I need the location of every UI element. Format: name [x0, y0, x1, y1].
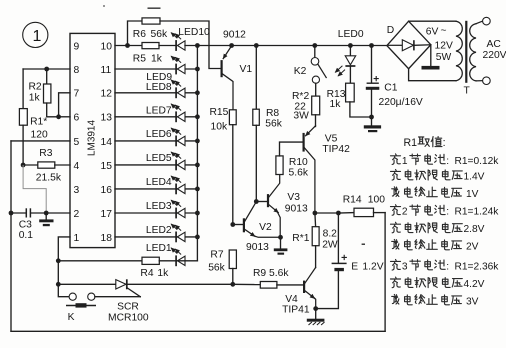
svg-text:1.2V: 1.2V	[362, 261, 383, 272]
svg-text:8: 8	[74, 65, 80, 76]
resistor R2 1k	[29, 69, 59, 117]
svg-text:12V: 12V	[435, 41, 453, 52]
svg-text:1k: 1k	[157, 268, 169, 279]
svg-text:V4: V4	[285, 294, 298, 305]
svg-text:LED7: LED7	[146, 105, 172, 116]
wire node to battery node	[315, 212, 339, 214]
LED LED5	[146, 152, 185, 170]
svg-text:100: 100	[368, 195, 385, 206]
svg-text:3V: 3V	[466, 296, 479, 307]
wire pin16 row to LED	[115, 188, 197, 190]
svg-text:6V: 6V	[426, 27, 439, 38]
bus junction dots	[195, 43, 200, 239]
figure number circled 1	[23, 22, 48, 47]
wire pin8 row	[23, 68, 70, 70]
resistor R8 56k	[253, 46, 283, 202]
node V1 emitter on rail	[229, 43, 234, 48]
transformer T secondary winding	[409, 21, 463, 81]
svg-text:R9: R9	[253, 268, 266, 279]
svg-text:LED3: LED3	[146, 201, 172, 212]
svg-text:2.8V: 2.8V	[464, 224, 485, 235]
svg-text:LED1: LED1	[146, 243, 172, 254]
svg-text:K2: K2	[294, 66, 307, 77]
LED LED10	[171, 27, 210, 51]
svg-text:10: 10	[101, 41, 113, 52]
wire pin15 row to LED	[115, 164, 197, 166]
svg-text:56k: 56k	[151, 29, 168, 40]
wire faded step from R3 node down to ground node	[23, 165, 46, 213]
node V2/V3 emitter junction	[278, 235, 283, 240]
node R7 bottom	[230, 282, 235, 287]
resistor R9 5.6k	[233, 268, 304, 288]
text charge 1 cell line	[390, 154, 499, 167]
LED LED7	[146, 104, 185, 122]
node V5 collector / R*1 top	[313, 211, 318, 216]
capacitor C3 0.1	[11, 208, 70, 241]
svg-text:7: 7	[74, 89, 80, 100]
svg-text:56k: 56k	[265, 119, 282, 130]
capacitor C1 220u/16V	[366, 46, 423, 126]
LED LED0	[335, 29, 364, 76]
svg-text:LED4: LED4	[146, 177, 172, 188]
svg-text:T: T	[464, 85, 471, 96]
wire right rail	[384, 213, 386, 332]
svg-text:10k: 10k	[211, 121, 228, 132]
node C3 ground junction	[44, 211, 49, 216]
transformer secondary labels	[426, 26, 453, 63]
svg-text::: :	[446, 156, 449, 167]
svg-text:LED2: LED2	[146, 225, 172, 236]
svg-text:D: D	[387, 25, 394, 36]
node SCR row	[56, 282, 61, 287]
node V4 emitter / battery return	[313, 306, 318, 311]
LED LED8	[146, 80, 185, 98]
wire pin13 row to LED	[115, 116, 197, 118]
wire left rail	[10, 141, 12, 331]
node K2 top on rail	[312, 43, 317, 48]
svg-text:LED6: LED6	[146, 129, 172, 140]
svg-text:21.5k: 21.5k	[36, 173, 62, 184]
wire speck top	[148, 7, 161, 9]
resistor R3 21.5k	[23, 148, 70, 184]
svg-text:TIP42: TIP42	[322, 144, 350, 155]
svg-text:R2: R2	[29, 82, 42, 93]
svg-text:9: 9	[74, 41, 80, 52]
wire pin1 to left drop	[58, 237, 70, 297]
wire LED anode bus	[196, 46, 198, 261]
svg-text:8.2: 8.2	[323, 228, 338, 239]
svg-text:17: 17	[101, 209, 113, 220]
svg-text:R10: R10	[289, 157, 308, 168]
svg-text:R1=1.24k: R1=1.24k	[455, 207, 500, 218]
svg-text:4.2V: 4.2V	[464, 279, 485, 290]
resistor R15 10k	[210, 107, 237, 225]
svg-text:LED5: LED5	[146, 153, 172, 164]
svg-text:5: 5	[74, 137, 80, 148]
svg-text:R5: R5	[133, 54, 146, 65]
U1 pin numbers	[74, 41, 113, 243]
svg-text:2: 2	[402, 207, 408, 218]
node pin10	[125, 43, 130, 48]
svg-text:5W: 5W	[436, 52, 452, 63]
text charge limit voltage 4.2V	[390, 277, 484, 290]
svg-text:4: 4	[74, 161, 80, 172]
svg-text:12: 12	[101, 89, 113, 100]
battery E 1.2V	[316, 213, 384, 309]
switch K	[66, 293, 140, 323]
svg-text:1: 1	[74, 233, 80, 244]
svg-text::: :	[443, 137, 446, 149]
svg-text:E: E	[351, 261, 358, 272]
diode bridge D	[387, 21, 431, 68]
op-amp U1 LM3914 IC body	[70, 33, 115, 247]
text charge 3 cells line	[390, 259, 499, 272]
svg-text:R1*: R1*	[30, 117, 47, 128]
transformer core	[465, 21, 467, 83]
svg-text:LED9: LED9	[146, 72, 172, 83]
wire pin10 row	[115, 45, 142, 47]
wire bottom rail	[11, 330, 385, 332]
svg-text:2V: 2V	[466, 241, 479, 252]
svg-text:3: 3	[74, 185, 80, 196]
node B R15/R7/V2 base	[230, 222, 243, 227]
svg-text:LM3914: LM3914	[86, 119, 97, 156]
svg-text:5.6k: 5.6k	[269, 268, 289, 279]
svg-text:2W: 2W	[322, 239, 338, 250]
text discharge end voltage 1V	[392, 187, 479, 200]
wire pin17 row to LED	[115, 212, 197, 214]
svg-text:LED8: LED8	[146, 82, 172, 93]
wire main positive rail	[185, 45, 387, 47]
thyristor SCR MCR100	[108, 279, 149, 323]
LED LED6	[146, 128, 185, 146]
node C3/pin2 row on rail	[9, 211, 14, 216]
resistor R*1 8.2 2W	[292, 213, 338, 268]
svg-text:1k: 1k	[151, 54, 163, 65]
svg-text:220μ/16V: 220μ/16V	[379, 97, 423, 108]
svg-text:0.1: 0.1	[19, 230, 34, 241]
resistor R7 56k	[208, 249, 236, 284]
text charge 2 cells line	[390, 205, 499, 218]
svg-text:11: 11	[101, 65, 112, 76]
resistor R14 100	[338, 195, 385, 217]
text discharge end voltage 2V	[392, 239, 479, 252]
ground at C3	[39, 213, 53, 226]
node R3 row	[21, 163, 26, 168]
LED LED2	[146, 224, 185, 242]
transformer primary winding	[464, 17, 506, 96]
node LED0 top on rail	[348, 43, 353, 48]
resistor R13 1k	[327, 67, 372, 118]
wire pin12 row to LED	[115, 92, 197, 94]
svg-text:R1=0.12k: R1=0.12k	[455, 156, 500, 167]
svg-text::: :	[446, 261, 449, 272]
wire pin11 row to LED	[115, 68, 197, 70]
resistor R4 1k on LED1 row	[58, 257, 197, 279]
svg-text:R6: R6	[133, 29, 146, 40]
svg-text:C1: C1	[384, 82, 397, 93]
resistor R6 56k top detour	[128, 18, 221, 69]
transistor V4 TIP41	[282, 268, 316, 316]
ground at C1	[364, 125, 381, 132]
svg-text:16: 16	[101, 185, 113, 196]
node pin6 junction	[56, 114, 70, 119]
node R8 top on rail	[254, 43, 259, 48]
svg-text:R3: R3	[39, 148, 52, 159]
svg-text:V3: V3	[287, 192, 300, 203]
svg-text:SCR: SCR	[117, 301, 139, 312]
svg-text:V5: V5	[325, 133, 338, 144]
node C1 top on rail	[369, 43, 374, 48]
wire SCR cathode row	[127, 283, 233, 285]
svg-text:120: 120	[31, 129, 48, 140]
text R1 value heading	[404, 137, 446, 150]
svg-text:R4: R4	[140, 268, 153, 279]
svg-text:1.4V: 1.4V	[464, 171, 485, 182]
resistor R*2 22 3W	[292, 83, 320, 126]
svg-text:9012: 9012	[223, 30, 246, 41]
wire pin14 row to LED	[115, 140, 197, 142]
svg-text:~: ~	[441, 26, 447, 37]
LED LED3	[146, 200, 185, 218]
LED LED1	[146, 243, 185, 266]
node pin8/R2	[44, 67, 49, 72]
svg-text:R14: R14	[343, 195, 362, 206]
svg-text:K: K	[68, 312, 75, 323]
ground at V4 hatched	[307, 309, 325, 325]
ground at V2/V3 emitters	[274, 237, 288, 254]
resistor R1* 120	[19, 69, 48, 165]
svg-text:3: 3	[402, 261, 408, 272]
svg-text:1k: 1k	[330, 99, 342, 110]
svg-text:MCR100: MCR100	[108, 312, 149, 323]
svg-text:V1: V1	[240, 64, 253, 75]
resistor R5 1k	[133, 43, 176, 65]
resistor R10 5.6k	[276, 142, 309, 179]
LED LED9	[146, 56, 185, 83]
node LED1 row	[56, 258, 61, 263]
svg-text:3W: 3W	[293, 111, 309, 122]
transistor V1 9012	[222, 30, 253, 110]
wire pin7 to pin6 row	[59, 93, 70, 117]
wire pin5 row to left rail	[11, 140, 70, 142]
svg-text:TIP41: TIP41	[282, 304, 310, 315]
transistor V5 TIP42	[304, 126, 351, 213]
svg-text:R1=2.36k: R1=2.36k	[455, 261, 500, 272]
svg-text:5.6k: 5.6k	[289, 168, 309, 179]
svg-text:9013: 9013	[285, 203, 308, 214]
text charge limit voltage 1.4V	[390, 169, 484, 182]
svg-text:15: 15	[101, 161, 113, 172]
svg-text:2: 2	[74, 209, 80, 220]
svg-text:13: 13	[101, 113, 113, 124]
svg-text:R7: R7	[210, 249, 223, 260]
svg-text:1k: 1k	[29, 93, 41, 104]
svg-text:C3: C3	[19, 219, 32, 230]
svg-text:9013: 9013	[246, 242, 269, 253]
node A V2 collector / V3 base	[254, 199, 267, 204]
svg-text:220V: 220V	[483, 50, 506, 61]
node C1/R13 ground junction	[369, 115, 374, 120]
svg-text:R15: R15	[210, 107, 229, 118]
node speck	[103, 5, 105, 7]
svg-text:56k: 56k	[208, 262, 225, 273]
svg-text:6: 6	[74, 113, 80, 124]
svg-text:1: 1	[402, 156, 408, 167]
svg-text:1V: 1V	[466, 189, 479, 200]
svg-text:AC: AC	[487, 39, 502, 50]
node battery top	[336, 211, 341, 216]
svg-text:1: 1	[33, 28, 42, 45]
svg-text:14: 14	[101, 137, 113, 148]
svg-text:R1: R1	[404, 137, 418, 149]
switch K2	[294, 46, 326, 84]
ground at bridge	[422, 45, 440, 70]
svg-text:18: 18	[101, 233, 113, 244]
wire pin18 row to LED	[115, 236, 197, 238]
text charge limit voltage 2.8V	[390, 222, 484, 235]
transistor V2 9013	[244, 202, 281, 254]
svg-text:R*1: R*1	[292, 233, 309, 244]
text discharge end voltage 3V	[392, 294, 479, 307]
svg-text:V2: V2	[259, 222, 272, 233]
transistor V3 9013	[268, 175, 308, 238]
svg-text::: :	[446, 207, 449, 218]
svg-text:LED0: LED0	[338, 29, 364, 40]
svg-text:LED10: LED10	[178, 27, 210, 38]
LED LED4	[146, 176, 185, 194]
wire SCR anode row	[58, 283, 116, 285]
